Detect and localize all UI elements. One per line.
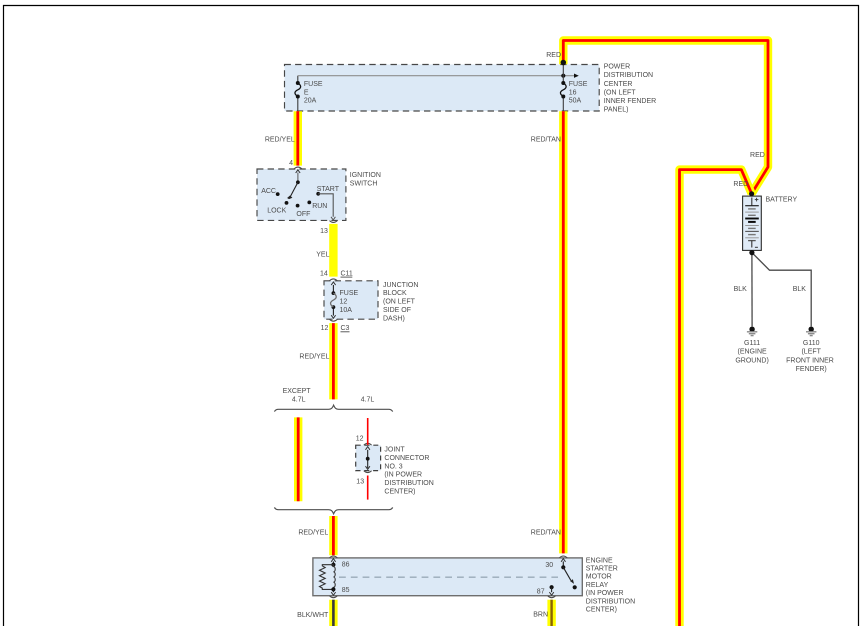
svg-text:BLK: BLK — [793, 286, 807, 293]
battery plus terminal mark — [755, 198, 759, 202]
svg-text:(ENGINE: (ENGINE — [738, 349, 768, 356]
svg-text:CONNECTOR: CONNECTOR — [384, 455, 429, 462]
relay node pin 87 — [550, 585, 554, 589]
svg-text:DISTRIBUTION: DISTRIBUTION — [586, 598, 635, 605]
relay mechanical link (dashed) — [339, 576, 558, 578]
wire BLK battery negative to G110 — [752, 253, 811, 327]
svg-text:12: 12 — [340, 298, 348, 305]
relay pin 30 arrow — [562, 561, 564, 567]
svg-text:86: 86 — [342, 562, 350, 569]
svg-text:DISTRIBUTION: DISTRIBUTION — [604, 72, 653, 79]
connector notch relay pin 86 — [330, 556, 338, 558]
svg-text:(IN POWER: (IN POWER — [384, 472, 422, 479]
ignition contact OFF — [296, 204, 300, 208]
svg-text:BLK/WHT: BLK/WHT — [297, 612, 329, 619]
svg-text:MOTOR: MOTOR — [586, 574, 612, 581]
label joint connector no.3 — [384, 446, 433, 495]
junction block box — [324, 281, 378, 319]
svg-text:RED/TAN: RED/TAN — [531, 530, 561, 537]
label engine starter motor relay — [586, 557, 635, 613]
label G110 left front inner fender — [786, 340, 834, 373]
engine starter motor relay box K1 — [313, 558, 582, 596]
battery cell plates — [745, 198, 759, 248]
svg-text:50A: 50A — [569, 98, 582, 105]
ignition rotor pivot node — [296, 180, 300, 184]
svg-text:10A: 10A — [340, 307, 353, 314]
svg-text:13: 13 — [356, 479, 364, 486]
connector notch joint connector pin 12 — [364, 443, 372, 445]
svg-text:30: 30 — [545, 562, 553, 569]
svg-text:INNER FENDER: INNER FENDER — [604, 98, 657, 105]
relay pin 85 arrow — [332, 589, 334, 592]
svg-text:(ON LEFT: (ON LEFT — [604, 89, 637, 96]
svg-text:12: 12 — [356, 436, 364, 443]
connector notch joint connector pin 13 — [364, 471, 372, 473]
wire RED 4.7L branch lower segment — [367, 476, 369, 500]
svg-text:SWITCH: SWITCH — [350, 181, 378, 188]
svg-text:EXCEPT: EXCEPT — [283, 388, 312, 395]
svg-text:POWER: POWER — [604, 64, 630, 71]
svg-text:JOINT: JOINT — [384, 446, 405, 453]
relay switch armature — [563, 567, 571, 580]
ignition switch contact arrow up to pin 4 — [297, 173, 299, 183]
node battery negative — [749, 250, 754, 255]
ignition contact START — [316, 192, 320, 196]
junction node on bus at fuse 16 — [561, 74, 565, 78]
wire RED/YEL merge brace to relay pin 86 — [329, 516, 337, 555]
svg-text:14: 14 — [320, 270, 328, 277]
svg-text:SIDE OF: SIDE OF — [383, 307, 411, 314]
fuse 12 10A in junction block — [332, 285, 334, 316]
relay node pin 86 — [331, 563, 335, 567]
svg-text:12: 12 — [321, 325, 329, 332]
svg-text:FUSE: FUSE — [340, 290, 359, 297]
connector notch relay pin 85 — [330, 596, 338, 598]
connector notch ignition pin 13 — [330, 221, 338, 223]
joint connector no.3 terminal — [367, 450, 369, 468]
label power distribution center — [604, 64, 657, 114]
svg-text:ENGINE: ENGINE — [586, 557, 613, 564]
svg-text:C11: C11 — [341, 270, 353, 277]
svg-text:20A: 20A — [304, 98, 317, 105]
relay node pin 85 — [331, 587, 335, 591]
svg-text:RED: RED — [733, 181, 748, 188]
label junction block — [383, 282, 418, 323]
svg-text:GROUND): GROUND) — [735, 357, 768, 364]
ignition contact RUN — [307, 201, 311, 205]
svg-text:BRN: BRN — [533, 612, 548, 619]
svg-text:4: 4 — [289, 160, 293, 167]
svg-text:OFF: OFF — [296, 211, 310, 218]
relay stationary contact — [573, 585, 577, 589]
svg-text:YEL: YEL — [316, 251, 329, 258]
wire RED/YEL fuse E to ignition switch pin 4 — [294, 111, 302, 165]
connector notch relay pin 30 — [559, 556, 567, 558]
brace merge except-4.7L / 4.7L — [274, 507, 392, 513]
svg-text:RED: RED — [750, 152, 765, 159]
relay pin 87 arrow — [551, 587, 553, 592]
svg-text:START: START — [317, 186, 340, 193]
svg-text:BATTERY: BATTERY — [766, 197, 798, 204]
ignition switch rotor arm toward LOCK — [290, 182, 298, 196]
svg-text:(LEFT: (LEFT — [801, 349, 821, 356]
connector notch ignition pin 4 — [294, 167, 302, 169]
svg-text:13: 13 — [320, 228, 328, 235]
svg-text:85: 85 — [342, 587, 350, 594]
power distribution center box U1 — [285, 65, 600, 112]
svg-text:FENDER): FENDER) — [796, 366, 827, 373]
svg-text:G110: G110 — [803, 340, 820, 347]
svg-text:CENTER): CENTER) — [586, 607, 617, 614]
svg-text:BLK: BLK — [734, 286, 748, 293]
svg-text:RED: RED — [546, 52, 561, 59]
svg-text:BLOCK: BLOCK — [383, 290, 407, 297]
wire RED/YEL junction block C3 to split brace — [329, 323, 337, 399]
svg-text:RED/TAN: RED/TAN — [531, 136, 561, 143]
connector notch junction block C11 pin 14 — [330, 279, 338, 281]
connector notch relay pin 87 — [548, 596, 556, 598]
svg-text:(IN POWER: (IN POWER — [586, 590, 624, 597]
svg-text:JUNCTION: JUNCTION — [383, 282, 418, 289]
svg-text:CENTER: CENTER — [604, 81, 633, 88]
wire RED battery positive feed to fuse 16 — [563, 41, 768, 194]
svg-text:FUSE: FUSE — [304, 81, 323, 88]
ignition switch box S1 — [257, 169, 346, 220]
wire RED 4.7L branch upper segment — [367, 418, 369, 445]
ground G111 — [747, 327, 757, 336]
svg-text:RED/YEL: RED/YEL — [299, 353, 329, 360]
ignition contact LOCK — [285, 201, 289, 205]
svg-text:C3: C3 — [341, 325, 350, 332]
svg-text:4.7L: 4.7L — [292, 396, 306, 403]
junction node RED feed at PDC top edge — [561, 60, 567, 66]
svg-text:E: E — [304, 89, 309, 96]
relay coil (resistor zigzag + winding) — [320, 565, 336, 590]
battery minus terminal mark — [755, 246, 758, 248]
label G111 engine ground — [735, 340, 768, 364]
svg-text:IGNITION: IGNITION — [350, 172, 381, 179]
fuse E 20A — [297, 76, 299, 111]
svg-text:RED/YEL: RED/YEL — [265, 137, 295, 144]
svg-text:87: 87 — [537, 589, 545, 596]
svg-text:DISTRIBUTION: DISTRIBUTION — [384, 480, 433, 487]
wire BLK/WHT from relay pin 85 — [329, 600, 337, 626]
svg-text:FUSE: FUSE — [569, 81, 588, 88]
ignition contact ACC — [276, 192, 280, 196]
svg-text:(ON LEFT: (ON LEFT — [383, 299, 416, 306]
wire BRN from relay pin 87 — [547, 600, 555, 626]
svg-text:PANEL): PANEL) — [604, 107, 629, 114]
svg-text:RELAY: RELAY — [586, 582, 609, 589]
joint connector node — [366, 457, 370, 461]
wire RED battery positive to starter (down right side) — [680, 170, 752, 626]
svg-text:16: 16 — [569, 89, 577, 96]
joint connector no.3 box — [356, 445, 381, 470]
node battery positive — [749, 191, 754, 196]
fuse 16 50A — [562, 65, 564, 112]
svg-text:RUN: RUN — [312, 203, 327, 210]
svg-text:NO. 3: NO. 3 — [384, 463, 402, 470]
relay pin 86 arrow — [332, 561, 334, 564]
wire RED/TAN fuse 16 to relay pin 30 — [559, 111, 567, 553]
brace split except-4.7L / 4.7L — [274, 405, 392, 411]
wire BLK battery negative to G111 — [751, 253, 753, 327]
svg-text:CENTER): CENTER) — [384, 489, 415, 496]
svg-text:G111: G111 — [744, 340, 760, 347]
svg-text:DASH): DASH) — [383, 315, 405, 322]
wire bus fuse E to fuse 16 with arrow — [298, 75, 575, 77]
battery box B1 — [743, 196, 762, 250]
connector notch junction block C3 pin 12 — [330, 319, 338, 321]
label ignition switch — [350, 172, 381, 188]
svg-text:LOCK: LOCK — [267, 208, 286, 215]
wire YEL ignition switch pin 13 to junction block C11 — [329, 224, 337, 277]
svg-text:STARTER: STARTER — [586, 566, 618, 573]
wire START contact to pin 13 — [318, 194, 333, 217]
ground G110 — [806, 327, 816, 336]
svg-text:ACC: ACC — [261, 188, 276, 195]
svg-text:RED/YEL: RED/YEL — [298, 530, 328, 537]
wire RED/YEL except-4.7L branch — [294, 417, 302, 501]
svg-text:FRONT INNER: FRONT INNER — [786, 357, 834, 364]
svg-text:4.7L: 4.7L — [361, 396, 375, 403]
relay node pin 30 — [561, 565, 565, 569]
